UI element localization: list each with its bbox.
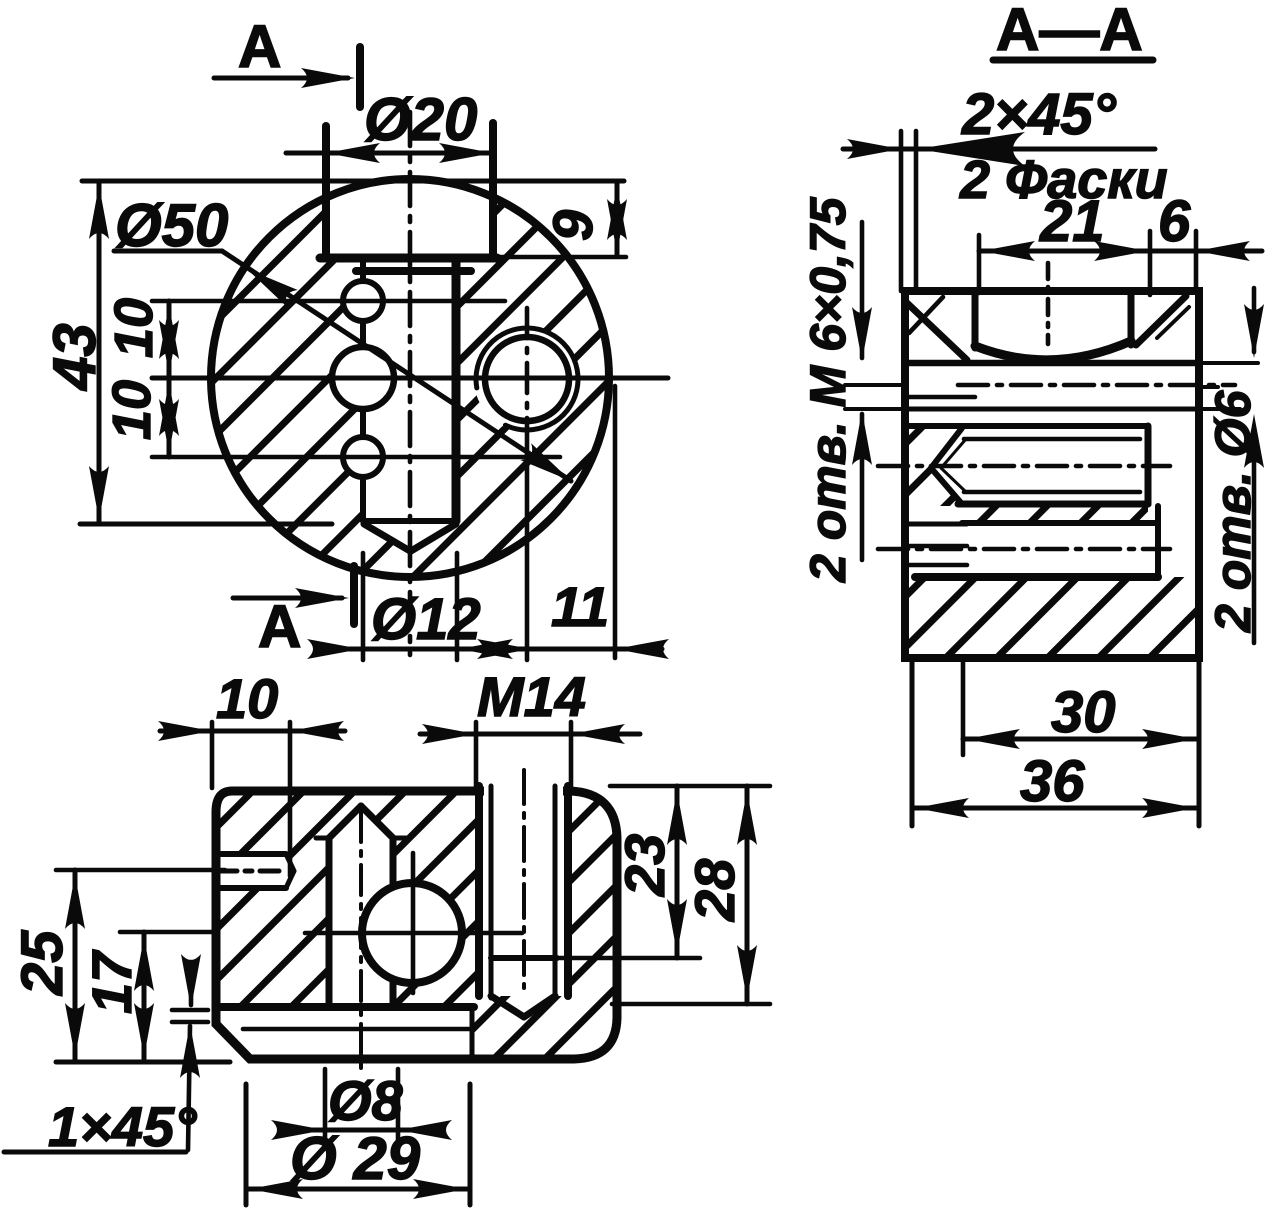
svg-text:21: 21 [1039,189,1105,254]
svg-text:36: 36 [1020,749,1085,814]
svg-text:А: А [238,13,281,80]
svg-text:А: А [258,593,301,660]
svg-text:2 отв. М 6×0,75: 2 отв. М 6×0,75 [800,196,856,583]
svg-text:6: 6 [1158,189,1191,254]
svg-text:А—А: А—А [996,0,1143,63]
svg-text:28: 28 [683,858,746,922]
svg-text:Ø 29: Ø 29 [290,1125,421,1192]
svg-text:2 отв. Ø6: 2 отв. Ø6 [1205,389,1261,633]
svg-text:10: 10 [216,667,278,730]
svg-text:23: 23 [613,834,676,897]
svg-text:М14: М14 [477,665,586,728]
svg-text:25: 25 [10,930,75,996]
svg-text:Ø50: Ø50 [115,192,228,259]
svg-text:30: 30 [1051,680,1116,745]
svg-text:11: 11 [551,575,609,638]
svg-text:Ø12: Ø12 [371,587,481,652]
svg-text:10: 10 [104,298,164,358]
svg-text:10: 10 [102,380,162,440]
svg-text:17: 17 [80,949,143,1014]
svg-text:1×45°: 1×45° [48,1095,197,1158]
svg-text:2×45°: 2×45° [961,82,1117,147]
svg-text:9: 9 [541,210,604,241]
svg-text:Ø20: Ø20 [364,86,477,153]
svg-text:Ø8: Ø8 [328,1069,404,1132]
svg-text:43: 43 [41,323,108,391]
